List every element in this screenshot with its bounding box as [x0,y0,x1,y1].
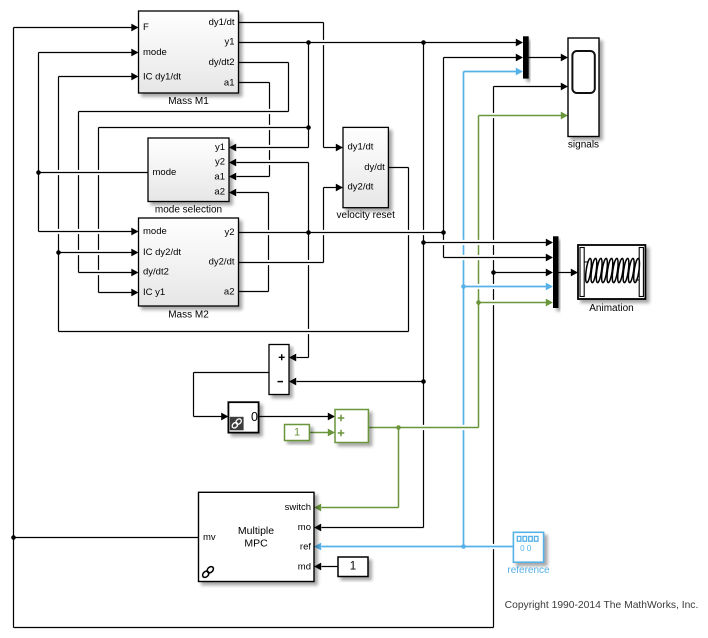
wire dy/dt reset routing (bottom) [59,331,409,333]
svg-text:y2: y2 [224,227,234,238]
wire Sum1 output into IC block [194,413,229,421]
wire Mass M1 a1 output [239,82,270,84]
svg-text:signals: signals [568,140,599,151]
svg-text:dy2/dt: dy2/dt [209,257,235,268]
junction mv mux2 branch [491,270,496,275]
wire into mode selection a1 [229,173,270,181]
svg-text:mo: mo [298,522,311,533]
wire y2 into Mux2 input2 [444,254,554,262]
wire MPC mv output [14,537,199,539]
wire dy/dt2 M1 vertical [288,63,290,112]
wire Mass M2 dy2/dt output [239,262,324,264]
junction green switch branch [396,425,401,430]
wire Sum2 output (green) [369,427,479,429]
svg-text:md: md [298,562,311,573]
wire ref into Mux1 input3 (blue) [464,68,524,76]
junction y1 minus input [421,379,426,384]
wire Sum1 output vertical [193,373,195,417]
wire velocity reset dy/dt output [389,167,409,169]
svg-text:switch: switch [285,502,311,513]
junction mode [36,170,41,175]
svg-text:Mass M2: Mass M2 [168,310,209,321]
wire mode to Mass M2 mode input [39,228,139,236]
wire mv to F input of Mass M1 [14,24,139,32]
wire Mass M1 dy/dt2 output [239,62,289,64]
wire y1 into Sum1 minus input [289,378,424,386]
wire dy2/dt vertical [323,188,325,263]
svg-text:dy1/dt: dy1/dt [348,142,374,153]
wire green to MPC switch input [314,504,399,512]
wire mv routing (bottom) [14,627,494,629]
wire IC block to Sum2 [259,413,336,421]
svg-text:IC dy1/dt: IC dy1/dt [143,71,181,82]
svg-text:mode: mode [143,47,167,58]
wire dy/dt2 to Mass M2 input [79,269,139,277]
svg-text:mv: mv [203,532,216,543]
wire into mode selection y1 [229,144,309,152]
junction mv/F [11,535,16,540]
wire green switch vertical [398,428,400,508]
wire a2 vertical [268,193,270,292]
wire Mass M1 dy1/dt output [239,22,324,24]
svg-text:velocity reset: velocity reset [337,210,396,221]
wire Mass M2 y2 output [239,232,444,234]
svg-text:ref: ref [300,541,311,552]
wire y1 long vertical [423,43,425,528]
wire IC y1 vertical (left) [98,128,100,293]
svg-text:dy/dt2: dy/dt2 [143,267,169,278]
svg-text:MPC: MPC [244,538,268,550]
wire green to scope input3 [479,112,569,120]
junction y1 mux2 branch [421,240,426,245]
wire mv vertical (left) [13,28,15,628]
wire y1 to IC y1 routing [99,127,309,129]
svg-text:F: F [143,22,149,33]
svg-text:a2: a2 [214,187,225,198]
wire y1 to Mass M2 IC y1 input [99,289,139,297]
wire Sum1 output [194,372,270,374]
wire constant 1 to Sum2 (green) [310,429,336,437]
svg-text:a2: a2 [224,286,235,297]
wire IC to Mass M1 IC dy1/dt input [59,73,139,81]
wire into mode selection y2 [229,159,309,167]
wire mv into Mux2 input3 [494,269,554,277]
wire y1 to mode selection vertical [308,43,310,148]
wire ref vertical (blue) [463,72,465,547]
reference source block [513,532,543,562]
wire Mass M2 a2 output [239,291,269,293]
svg-text:Copyright 1990-2014 The MathWo: Copyright 1990-2014 The MathWorks, Inc. [505,600,699,611]
wire constant to MPC md input [314,563,339,571]
svg-text:mode selection: mode selection [155,205,222,216]
wire y2 into Mux1 input2 [444,54,524,62]
svg-text:0 0: 0 0 [520,544,532,553]
wire into velocity reset dy1/dt [324,144,344,152]
svg-text:0: 0 [251,410,258,424]
wire mode vertical [38,53,40,232]
junction ref line (blue) [461,544,466,549]
wire ref into Mux2 input4 (blue) [464,283,554,291]
wire IC to Mass M2 IC dy2/dt input [59,249,139,257]
svg-text:dy2/dt: dy2/dt [348,182,374,193]
subsystem mode selection [148,138,229,202]
wire into Sum1 plus input [289,354,309,362]
junction y2 branch [306,230,311,235]
svg-text:IC y1: IC y1 [143,287,165,298]
wire y1 to MPC mo input [314,524,424,532]
mux Mux1 [523,36,529,78]
svg-text:1: 1 [294,426,300,438]
svg-text:a1: a1 [224,77,235,88]
wire Mux2 output to Animation [559,269,579,277]
wire dy1/dt vertical [323,23,325,148]
wire y2 to mux vertical [443,58,445,258]
svg-text:dy1/dt: dy1/dt [209,17,235,28]
svg-text:mode: mode [153,167,177,178]
svg-text:a1: a1 [214,171,225,182]
subsystem Mass M2 [139,218,239,306]
wire green vertical [478,116,480,428]
wire mv to scope input2 [494,83,569,91]
junction IC [56,250,61,255]
constant 1 (md input) [338,557,368,577]
svg-text:mode: mode [143,226,167,237]
wire a1 vertical [269,83,271,177]
junction green mux2 branch [476,300,481,305]
wire IC vertical [58,77,60,332]
junction y1 branch 1 [306,40,311,45]
svg-text:y1: y1 [215,142,225,153]
animation block [578,245,645,299]
svg-text:Animation: Animation [589,303,633,314]
svg-text:IC dy2/dt: IC dy2/dt [143,247,181,258]
constant 1 (green) [285,425,310,441]
svg-text:Multiple: Multiple [238,525,274,537]
wire dy/dt reset vertical [408,168,410,332]
wire dy/dt2 vertical (left) [78,112,80,273]
junction ref mux2 branch (blue) [461,284,466,289]
scope signals [568,38,599,137]
svg-text:1: 1 [350,561,356,573]
sum block Sum2 (green, + +) [335,410,368,443]
block Multiple MPC (library link) [199,492,315,581]
wire reference to MPC ref input (blue) [314,543,514,551]
svg-text:y1: y1 [224,37,234,48]
wire y1 into Mux2 input1 [424,239,554,247]
wire mode selection output [39,172,149,174]
wire into velocity reset dy2/dt [324,184,344,192]
svg-text:reference: reference [507,565,550,576]
IC block (library link, value 0) [228,402,258,432]
wire y2 branch vertical [308,163,310,358]
mux Mux2 [553,236,559,308]
subsystem velocity reset [343,127,388,207]
wire into mode selection a2 [229,189,269,197]
svg-text:Mass M1: Mass M1 [168,96,209,107]
svg-text:dy/dt2: dy/dt2 [209,57,235,68]
wire Mass M1 y1 output to Mux1 [239,39,524,47]
wire dy/dt2 routing (lower) [79,111,289,113]
junction y1 branch 2 [421,40,426,45]
svg-text:y2: y2 [215,157,225,168]
wire green into Mux2 input5 [479,299,554,307]
junction y1 IC feed [306,125,311,130]
svg-text:dy/dt: dy/dt [364,162,385,173]
wire mv vertical (right) [493,87,495,628]
wire mode to Mass M1 mode input [39,49,139,57]
subsystem Mass M1 [139,11,239,93]
junction y2 mux branch [441,230,446,235]
wire Mux1 output to scope [529,54,569,62]
sum block Sum1 (+/-) [269,345,289,395]
